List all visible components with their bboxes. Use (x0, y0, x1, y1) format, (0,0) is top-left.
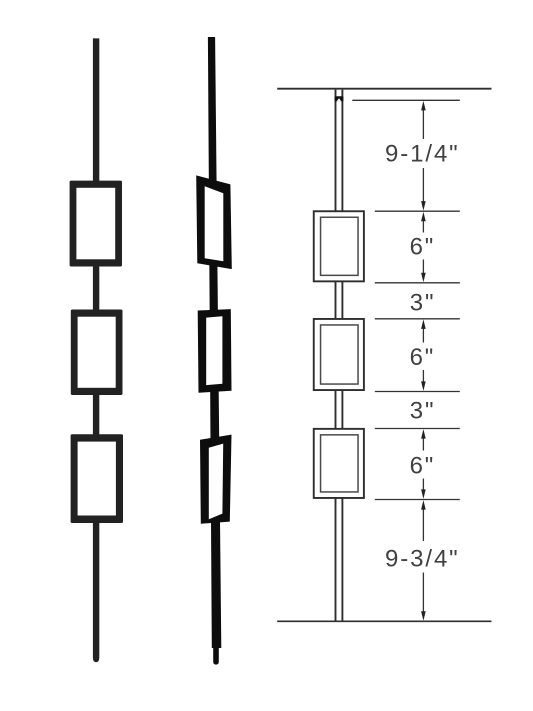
svg-text:9-3/4": 9-3/4" (385, 545, 460, 572)
svg-text:6": 6" (410, 234, 436, 261)
svg-text:3": 3" (410, 289, 436, 316)
svg-text:9-1/4": 9-1/4" (385, 141, 460, 168)
svg-text:3": 3" (410, 398, 436, 425)
svg-text:6": 6" (410, 344, 436, 371)
svg-text:6": 6" (410, 452, 436, 479)
